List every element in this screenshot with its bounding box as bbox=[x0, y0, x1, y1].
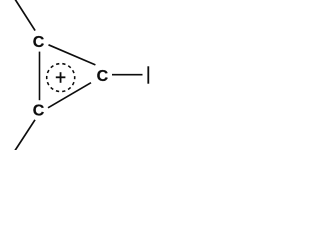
wire: C3-H horizontal bond bbox=[112, 74, 143, 76]
wire: C1-C3 ring bond bbox=[49, 45, 96, 65]
wire: C2-C3 ring bond bbox=[48, 83, 91, 108]
wire: C1-C2 vertical ring bond bbox=[39, 52, 41, 101]
svg-text:C: C bbox=[33, 102, 45, 119]
plus charge bbox=[56, 72, 66, 83]
wire: top-left substituent bond into C1 bbox=[15, 0, 35, 31]
svg-text:C: C bbox=[97, 68, 109, 85]
node H (clipped letter at right edge) bbox=[147, 66, 149, 83]
dashed circle (aromatic delocalization) bbox=[47, 64, 75, 92]
svg-text:C: C bbox=[33, 34, 45, 51]
wire: bottom-left substituent bond from C2 bbox=[15, 120, 35, 151]
